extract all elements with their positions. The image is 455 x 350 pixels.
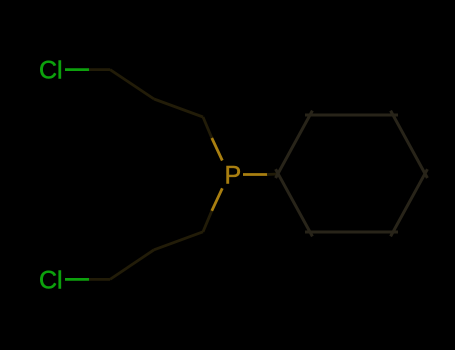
wire: bond Cl(bottom)-C1b dark half	[89, 278, 110, 281]
svg-text:Cl: Cl	[39, 57, 63, 85]
wire: bond C2-C3 top chain	[154, 99, 203, 117]
ring: cyclohexane hexagon	[276, 111, 428, 237]
svg-text:Cl: Cl	[39, 266, 63, 294]
wire: bond Cl(top)-C1 green half	[65, 68, 89, 71]
wire: bond C3-P top, orange half	[212, 138, 223, 161]
wire: bond C1-C2 top chain	[110, 70, 154, 99]
wire: bond C1b-C2b bottom chain	[110, 250, 154, 280]
svg-text:P: P	[225, 162, 242, 190]
wire: bond C3-P top, dark half	[203, 117, 212, 138]
wire: bond P-ring dark half	[267, 173, 278, 176]
wire: bond Cl(top)-C1 dark half	[89, 68, 110, 71]
wire: bond Cl(bottom)-C1b green half	[65, 278, 89, 281]
wire: bond C3b-P bottom, orange half	[212, 188, 223, 211]
wire: bond C3b-P bottom, dark half	[203, 211, 212, 232]
wire: bond P-ring orange half	[243, 173, 268, 176]
wire: bond C2b-C3b bottom chain	[154, 232, 203, 250]
